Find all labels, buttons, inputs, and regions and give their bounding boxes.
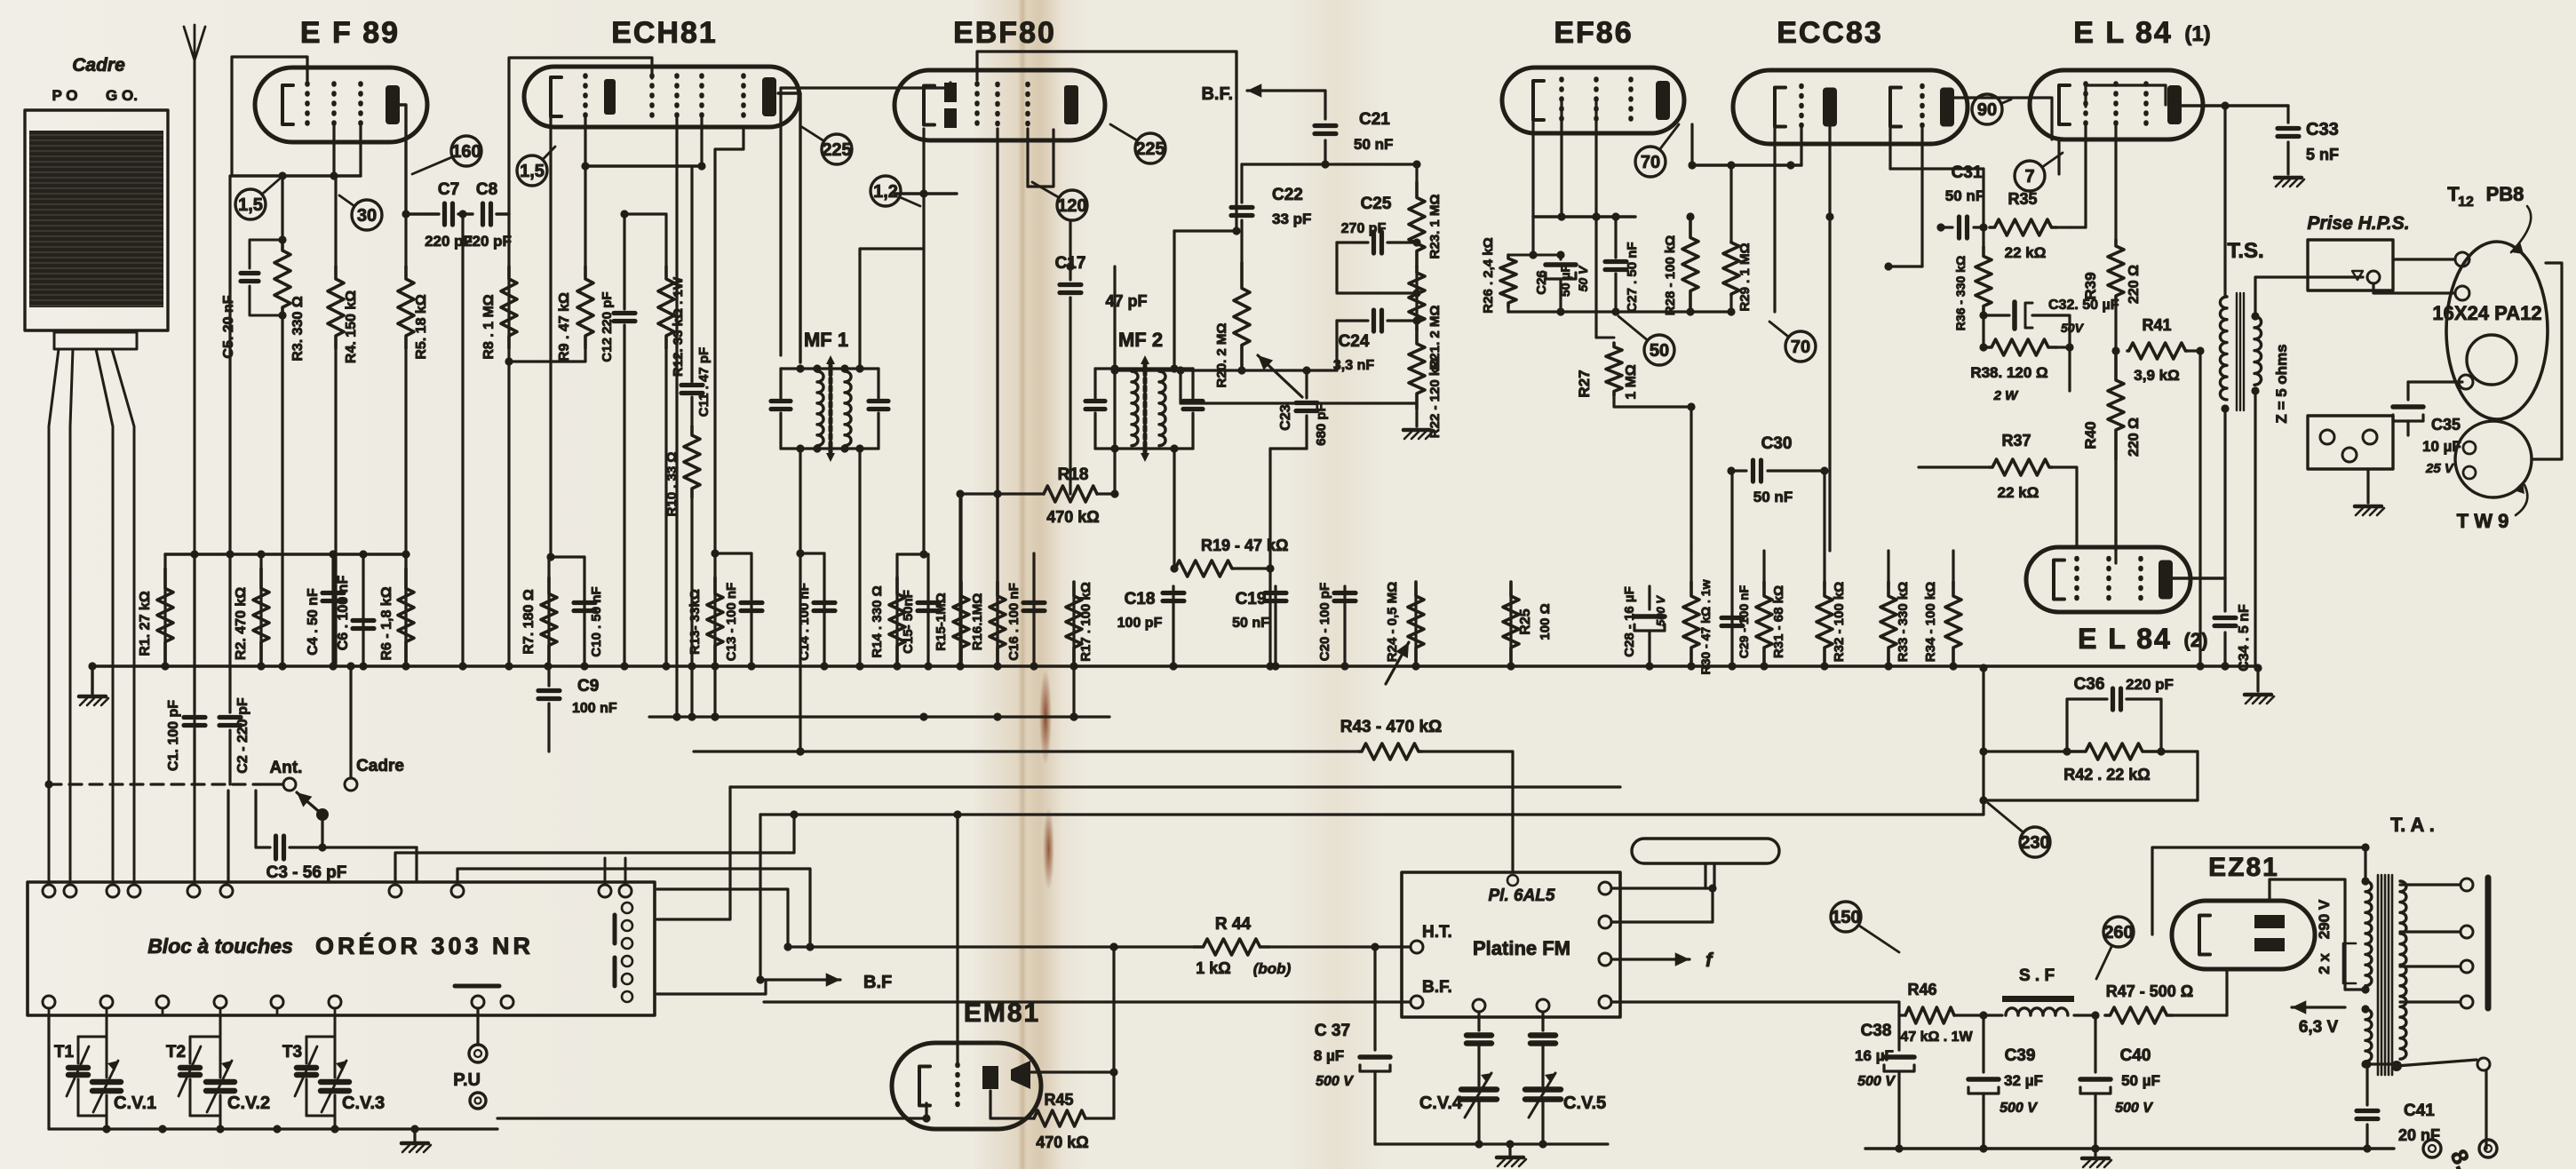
tube EZ81 [2172, 901, 2315, 969]
resistor R1 27kΩ [138, 554, 173, 666]
svg-text:Z = 5 ohms: Z = 5 ohms [2273, 344, 2290, 423]
wire R37 left feed [1919, 465, 1954, 468]
Bloc à touches label [147, 934, 293, 958]
capacitor C29 100nF [1721, 471, 1751, 666]
svg-text:Bloc à touches: Bloc à touches [147, 934, 293, 958]
wire ECC83 anode1 riser [1825, 124, 1833, 551]
svg-text:R47 - 500 Ω: R47 - 500 Ω [2106, 982, 2193, 1000]
speaker 16X24PA12 [2446, 242, 2548, 419]
svg-text:E F 89: E F 89 [300, 16, 400, 50]
svg-text:C2 - 220 pF: C2 - 220 pF [235, 697, 250, 774]
svg-text:70: 70 [1791, 338, 1810, 357]
node C7-C8 junction [458, 210, 466, 666]
svg-text:S . F: S . F [2019, 966, 2055, 985]
svg-text:22 kΩ: 22 kΩ [2005, 244, 2047, 261]
svg-text:C.V.4: C.V.4 [1419, 1093, 1463, 1113]
svg-text:R22 - 120 kΩ: R22 - 120 kΩ [1427, 358, 1443, 438]
wire ECH81 osc grid drop [715, 129, 743, 553]
resistor R15 1MΩ [934, 494, 969, 666]
main ground bus wire [92, 664, 2258, 668]
node Cadre terminal [345, 662, 404, 791]
Prise H.P.S. socket [2308, 240, 2393, 290]
speaker 16X24PA12 label [2432, 302, 2541, 324]
svg-text:C8: C8 [476, 180, 497, 199]
svg-text:PB8: PB8 [2486, 183, 2524, 205]
capacitor C24 3,3nF [1333, 310, 1421, 373]
resistor R24 0,5MΩ pot [1385, 582, 1424, 684]
svg-text:47 kΩ . 1W: 47 kΩ . 1W [1900, 1030, 1973, 1045]
svg-text:C7: C7 [438, 180, 459, 199]
svg-text:C6 . 100 nF: C6 . 100 nF [336, 576, 351, 651]
svg-text:C9: C9 [577, 677, 599, 696]
wire 6AL5 T bar [1632, 839, 1779, 888]
Bloc à touches box [28, 882, 655, 1015]
svg-text:470 kΩ: 470 kΩ [1036, 1133, 1088, 1151]
tube ECC83 label [1777, 16, 1883, 50]
svg-text:R 44: R 44 [1215, 915, 1252, 934]
svg-text:C38: C38 [1861, 1022, 1892, 1040]
wire detector return rail [1176, 366, 1417, 403]
wire MF2 bottom legs [1110, 449, 1174, 569]
wire EL84 (2) anode out [2173, 577, 2225, 579]
circled 7 [2015, 153, 2063, 191]
svg-text:T2: T2 [166, 1043, 186, 1062]
svg-text:C22: C22 [1272, 186, 1303, 204]
svg-text:C39: C39 [2005, 1046, 2036, 1065]
capacitor C39 32µF 500V [1968, 1015, 2043, 1149]
svg-text:C40: C40 [2120, 1046, 2151, 1065]
resistor R4 150kΩ [328, 176, 359, 666]
wire screen riser [2068, 347, 2071, 391]
Platine FM box [1402, 872, 1620, 1017]
svg-text:C41: C41 [2404, 1101, 2435, 1120]
wire bloc riser 2 [457, 869, 815, 951]
svg-text:R43 - 470 kΩ: R43 - 470 kΩ [1340, 718, 1443, 736]
resistor R20 2MΩ volume pot [1214, 263, 1302, 397]
svg-text:2 x: 2 x [2316, 953, 2333, 974]
capacitor C10 50nF [574, 557, 604, 666]
capacitor C27 50nF [1605, 212, 1640, 312]
svg-text:1,5: 1,5 [238, 195, 263, 215]
bus wire to Platine FM HT [694, 750, 1359, 752]
resistor R7 180Ω [521, 557, 557, 666]
wire EM81 HT riser [1109, 942, 1117, 1118]
svg-text:7: 7 [2024, 167, 2034, 187]
ground stub at left end of main bus [79, 666, 108, 705]
capacitor C33 5nF [2278, 106, 2339, 174]
svg-text:47 pF: 47 pF [1105, 292, 1147, 310]
svg-text:R34 - 100 kΩ: R34 - 100 kΩ [1923, 582, 1938, 662]
svg-text:500 V: 500 V [1857, 1074, 1896, 1089]
resistor R9 47kΩ [505, 166, 593, 366]
capacitor C26 50µF 50V [1533, 250, 1590, 312]
wire EM81 cathode return [497, 1103, 931, 1123]
svg-text:C34 . 5 nF: C34 . 5 nF [2237, 604, 2252, 672]
svg-text:C12 220 pF: C12 220 pF [600, 291, 615, 362]
resistor R5 18kΩ [398, 214, 429, 666]
wire MF1 bottom legs [796, 449, 860, 756]
svg-text:ECH81: ECH81 [611, 16, 718, 50]
resistor R17 100kΩ [1066, 582, 1093, 721]
svg-text:R40: R40 [2082, 421, 2099, 449]
svg-text:220 Ω: 220 Ω [2127, 265, 2142, 304]
mains output jacks [2423, 1140, 2497, 1169]
svg-text:B.F: B.F [863, 973, 892, 992]
wire ECC83 grid1 drop [1786, 129, 1801, 170]
svg-text:R46: R46 [1907, 981, 1936, 998]
capacitor C36 220pF [2067, 675, 2174, 751]
svg-text:T. A .: T. A . [2390, 814, 2435, 836]
mains transformer T.A. label [2390, 814, 2435, 836]
capacitor C5 20nF [221, 240, 282, 359]
AVC bus wire [649, 715, 1109, 718]
svg-text:C10 . 50 nF: C10 . 50 nF [589, 586, 604, 656]
svg-text:22 kΩ: 22 kΩ [1998, 484, 2039, 501]
svg-text:C13 - 100 nF: C13 - 100 nF [724, 583, 739, 661]
tube EL84 (1) [2030, 70, 2203, 139]
svg-text:P O: P O [52, 87, 78, 104]
wire speaker feed [2373, 259, 2455, 293]
svg-text:1 MΩ: 1 MΩ [1624, 364, 1639, 400]
svg-text:50 nF: 50 nF [1354, 136, 1393, 153]
capacitor C3 56pF [256, 791, 417, 882]
svg-text:R27: R27 [1576, 370, 1593, 397]
svg-text:T W 9: T W 9 [2457, 510, 2509, 532]
capacitor C40 50µF 500V [2080, 1015, 2160, 1149]
resistor R34 100kΩ [1923, 551, 1961, 662]
ground below C33 [2275, 178, 2304, 187]
svg-text:R32 - 100 kΩ: R32 - 100 kΩ [1832, 582, 1847, 662]
svg-text:C33: C33 [2306, 120, 2339, 139]
svg-text:90: 90 [1977, 100, 1997, 120]
svg-text:R28 - 100 kΩ: R28 - 100 kΩ [1663, 235, 1678, 315]
svg-text:32 µF: 32 µF [2004, 1072, 2043, 1089]
speaker connector box lower [2308, 416, 2393, 469]
svg-text:270 pF: 270 pF [1341, 221, 1387, 236]
circled 90 [1972, 94, 2011, 124]
resistor R25 100Ω [1503, 582, 1553, 666]
wire detector top rail [1242, 160, 1417, 168]
svg-text:R6 - 1,8 kΩ: R6 - 1,8 kΩ [379, 586, 394, 660]
circled 70 EF86 anode [1635, 124, 1679, 177]
resistor R32 100kΩ [1817, 551, 1847, 662]
svg-text:Prise H.P.S.: Prise H.P.S. [2307, 213, 2409, 234]
svg-text:ECC83: ECC83 [1777, 16, 1883, 50]
svg-text:EF86: EF86 [1554, 16, 1633, 50]
resistor R27 1MΩ [1576, 343, 1696, 411]
capacitor C8 220pF [464, 180, 512, 250]
svg-text:50 nF: 50 nF [1753, 489, 1793, 505]
TW9 connector [2455, 421, 2532, 497]
wire MF1 secondary top [860, 249, 924, 369]
wire EL84 screen drop [2114, 125, 2117, 240]
svg-text:150: 150 [1831, 908, 1860, 927]
capacitor C20 100pF [1317, 583, 1356, 666]
svg-text:R12. 33 kΩ . 1W: R12. 33 kΩ . 1W [671, 276, 686, 377]
Cadre PO GO label [52, 87, 138, 104]
svg-text:R8 . 1 MΩ: R8 . 1 MΩ [481, 294, 497, 359]
capacitor C7 220pF [402, 180, 473, 250]
wire T.S. primary bottom [2221, 404, 2229, 578]
svg-text:260: 260 [2103, 923, 2133, 942]
tube ECH81 label [611, 16, 718, 50]
svg-text:R42 . 22 kΩ: R42 . 22 kΩ [2063, 766, 2151, 783]
Bloc top terminals [43, 858, 632, 897]
wire ECH81 cathode drop [546, 116, 584, 561]
svg-text:100 nF: 100 nF [572, 701, 617, 716]
bus wire L5 [760, 813, 1984, 815]
Platine FM terminals [1372, 882, 1611, 1012]
resistor R19 47kΩ [1170, 537, 1288, 666]
bus wire L4 [730, 785, 1620, 788]
svg-text:220 pF: 220 pF [464, 233, 512, 250]
capacitor C25 270pF [1337, 195, 1421, 298]
svg-text:1,5: 1,5 [520, 162, 545, 181]
wire T.S. secondary top to Prise [2251, 277, 2322, 321]
IF transformer MF2 label [1118, 329, 1163, 351]
capacitor C22 33pF [1231, 164, 1311, 263]
wire detector low rail [1266, 449, 1307, 573]
circled 1,5 EF89 [235, 179, 279, 219]
wire EF89 anode drop [400, 105, 406, 214]
wire EBF80 pentode grid drop [996, 129, 998, 666]
svg-text:3,9 kΩ: 3,9 kΩ [2134, 367, 2179, 384]
svg-text:C4 . 50 nF: C4 . 50 nF [306, 588, 321, 656]
svg-text:R31 - 68 kΩ: R31 - 68 kΩ [1771, 585, 1786, 658]
variable capacitor C.V.5 [1525, 1012, 1606, 1149]
resistor R18 470kΩ [956, 465, 1115, 526]
wire bloc riser 1 [395, 810, 799, 882]
svg-text:C28 - 16 µF: C28 - 16 µF [1622, 586, 1637, 657]
svg-text:50: 50 [1650, 341, 1669, 361]
svg-text:R7. 180 Ω: R7. 180 Ω [521, 589, 537, 654]
capacitor C37 8µF 500V [1314, 947, 1390, 1144]
svg-text:R33 - 330 kΩ: R33 - 330 kΩ [1896, 582, 1911, 662]
svg-text:6,3 V: 6,3 V [2299, 1018, 2339, 1037]
wire EF86 cathode drop [1508, 100, 1538, 259]
circled 70 ECC83 [1769, 322, 1816, 362]
circled 50 [1618, 316, 1674, 365]
capacitor C17 47pF [1055, 222, 1148, 494]
svg-text:50 µF: 50 µF [1558, 265, 1572, 298]
wire T.S. secondary bottom [2251, 386, 2259, 666]
svg-text:C21: C21 [1359, 110, 1390, 129]
svg-text:T.S.: T.S. [2227, 239, 2263, 263]
T.S. impedance label [2273, 344, 2290, 423]
svg-text:220 pF: 220 pF [2126, 676, 2174, 693]
wire EL84 (1) top loop [2086, 85, 2166, 107]
svg-text:C30: C30 [1761, 434, 1793, 453]
resistor R36 330kΩ [1953, 247, 1992, 347]
TW9 label [2457, 481, 2528, 532]
svg-text:R29 . 1 MΩ: R29 . 1 MΩ [1737, 243, 1753, 311]
Prise H.P.S. label [2307, 213, 2409, 234]
svg-text:R3. 330 Ω: R3. 330 Ω [290, 296, 306, 361]
svg-text:1 kΩ: 1 kΩ [1196, 959, 1230, 977]
wire EF86 cathode net bottom [1508, 307, 1736, 315]
resistor R41 3,9kΩ [2111, 316, 2204, 671]
svg-text:Pl. 6AL5: Pl. 6AL5 [1489, 887, 1555, 905]
ground below CV bus [402, 1129, 431, 1152]
capacitor C21 50nF [1315, 91, 1393, 164]
svg-text:R5. 18 kΩ: R5. 18 kΩ [414, 294, 429, 359]
svg-text:C25: C25 [1361, 195, 1392, 213]
resistor R13 33kΩ [688, 549, 751, 720]
ground right end of main bus [2245, 668, 2274, 704]
capacitor C18 100pF [1117, 586, 1184, 666]
resistor R28 100kΩ [1663, 212, 1698, 315]
svg-text:C.V.2: C.V.2 [227, 1093, 270, 1113]
svg-text:C.V.1: C.V.1 [114, 1093, 156, 1113]
resistor R29 1MΩ [1723, 165, 1753, 312]
circled 150 [1831, 902, 1899, 952]
resistor R2 470kΩ [234, 550, 269, 666]
wire feedback risers [1979, 668, 2198, 815]
svg-text:R25: R25 [1518, 608, 1533, 634]
capacitor C15 50nF [901, 554, 939, 666]
wire HT rail to EZ81 [1899, 1014, 1905, 1016]
svg-text:120: 120 [1057, 196, 1086, 216]
svg-text:MF 2: MF 2 [1118, 329, 1163, 351]
svg-text:R36 - 330 kΩ: R36 - 330 kΩ [1953, 256, 1968, 330]
svg-text:8 µF: 8 µF [1314, 1047, 1344, 1064]
AVC bus dots [688, 712, 1077, 720]
wire EF89 grid top loop [232, 57, 307, 176]
svg-text:Cadre: Cadre [72, 55, 125, 76]
wire ECC83 cathode2 drop [1890, 129, 1984, 227]
output transformer T.S. [2220, 293, 2261, 410]
capacitor C23 680pF [1278, 370, 1329, 449]
resistor R37 22kΩ [1954, 432, 2077, 545]
resistor R6 1,8kΩ [379, 554, 414, 666]
mains transformer T.A. [2361, 875, 2406, 1075]
svg-text:E L 84: E L 84 [2073, 16, 2173, 50]
resistor R35 22kΩ [1979, 190, 2070, 261]
svg-text:33 pF: 33 pF [1272, 211, 1311, 227]
svg-text:R15-1MΩ: R15-1MΩ [934, 592, 949, 650]
trimmer T3 and variable capacitor C.V.3 [282, 1015, 385, 1133]
svg-text:100 Ω: 100 Ω [1538, 603, 1553, 640]
tube EF86 label [1554, 16, 1633, 50]
wire band lower line [657, 980, 766, 994]
svg-text:EZ81: EZ81 [2208, 853, 2279, 882]
tube EF89 label [300, 16, 400, 50]
capacitor C38 16µF 500V [1855, 1015, 1914, 1149]
wire ECC83 grid2 drop [1884, 129, 1922, 271]
ground on bottom bus [2082, 1149, 2111, 1167]
svg-text:R16.1MΩ: R16.1MΩ [970, 593, 985, 651]
svg-text:C.V.5: C.V.5 [1563, 1093, 1606, 1113]
wire EBF80 diode drop [1028, 129, 1053, 187]
tube ECH81 [524, 67, 799, 127]
svg-text:C 37: C 37 [1315, 1022, 1350, 1040]
wire ECC83 cathode1 drop [1773, 129, 1776, 312]
svg-text:R1. 27 kΩ: R1. 27 kΩ [138, 591, 153, 656]
trimmer T1 and variable capacitor C.V.1 [54, 1015, 156, 1133]
svg-text:P.U: P.U [453, 1070, 481, 1090]
svg-text:MF 1: MF 1 [804, 329, 848, 351]
svg-text:R4. 150 kΩ: R4. 150 kΩ [344, 290, 359, 363]
T.A. secondary taps [2400, 878, 2488, 1008]
Cadre coil body [25, 110, 168, 349]
wire T.S. primary top [2223, 106, 2226, 297]
wire Platine FM BF line [764, 1000, 1372, 1003]
svg-text:Ant.: Ant. [270, 759, 303, 777]
wire bottom ground bus [1865, 1144, 2394, 1152]
svg-text:R23. 1 MΩ: R23. 1 MΩ [1427, 195, 1443, 259]
resistor R43 470kΩ [1340, 718, 1513, 872]
svg-text:R20. 2 MΩ: R20. 2 MΩ [1214, 323, 1229, 388]
svg-text:50 V: 50 V [1576, 265, 1590, 291]
resistor R30 47kΩ 1W [1683, 551, 1713, 674]
svg-text:R18: R18 [1058, 465, 1089, 484]
svg-text:290 V: 290 V [2316, 899, 2333, 939]
svg-text:C36: C36 [2074, 675, 2105, 694]
ground below Platine [1497, 1144, 1526, 1166]
antenna [184, 25, 205, 882]
Bloc bottom terminals [43, 986, 513, 1015]
wire EL84 (2) grid feed [0, 0, 1, 1]
svg-text:500 V: 500 V [1654, 595, 1667, 626]
resistor R33 330kΩ [1880, 551, 1911, 662]
node Ant terminal [270, 759, 303, 791]
tube EL84 (2) label [2078, 623, 2207, 655]
wire band L5 drop to BF [759, 815, 761, 980]
node B.F takeoff arrow [756, 973, 892, 992]
tube EBF80 label [953, 16, 1056, 50]
capacitor C32 50µF 50V [1979, 298, 2119, 347]
wire EF89 g1 junction rail [232, 171, 361, 179]
circled 160 EF89 [412, 136, 481, 174]
OREOR 303 NR label [315, 932, 534, 959]
T.A. 6,3V arrow [2292, 1000, 2345, 1037]
wire detector mid rail [1110, 366, 1337, 449]
svg-text:R45: R45 [1044, 1091, 1073, 1109]
svg-text:Cadre: Cadre [356, 757, 404, 775]
resistor R22 120kΩ [1409, 329, 1443, 438]
svg-text:30: 30 [357, 206, 377, 226]
svg-text:50V: 50V [2061, 321, 2085, 335]
resistor R46 47kΩ 1W [1900, 981, 2002, 1045]
svg-text:500 V: 500 V [2000, 1101, 2038, 1116]
resistor R42 22kΩ [1984, 744, 2198, 783]
tube EM81 [892, 1043, 1041, 1129]
svg-text:160: 160 [451, 142, 481, 162]
tube EL84 (2) [2026, 547, 2190, 612]
svg-text:EBF80: EBF80 [953, 16, 1056, 50]
circled 30 EF89 [339, 195, 382, 230]
svg-text:500 V: 500 V [1316, 1074, 1354, 1089]
circled 1,5 ECH81 [517, 147, 555, 186]
resistor R47 500Ω [2091, 982, 2227, 1023]
capacitor C41 20nF [2357, 1060, 2440, 1149]
IF transformer MF2 [1085, 355, 1203, 462]
Bloc switch contact bank [615, 903, 632, 1002]
wire EL84 (1) cathode stub [2057, 139, 2060, 174]
capacitor C11 47pF [681, 162, 712, 426]
Cadre frame-antenna label [72, 55, 125, 76]
Cadre lead fan wires [49, 349, 134, 882]
svg-text:470 kΩ: 470 kΩ [1046, 508, 1099, 526]
wire ECH81 grid rail [581, 115, 702, 171]
circled 225 EBF80 right [1110, 124, 1165, 163]
svg-text:R37: R37 [2001, 432, 2031, 449]
svg-text:C29 - 100 nF: C29 - 100 nF [1737, 584, 1751, 658]
svg-text:225: 225 [1135, 139, 1165, 159]
T12 PB8 label [2447, 183, 2531, 254]
resistor R38 120Ω 2W [1970, 339, 2073, 403]
svg-text:R10 . 33 Ω: R10 . 33 Ω [664, 452, 680, 517]
